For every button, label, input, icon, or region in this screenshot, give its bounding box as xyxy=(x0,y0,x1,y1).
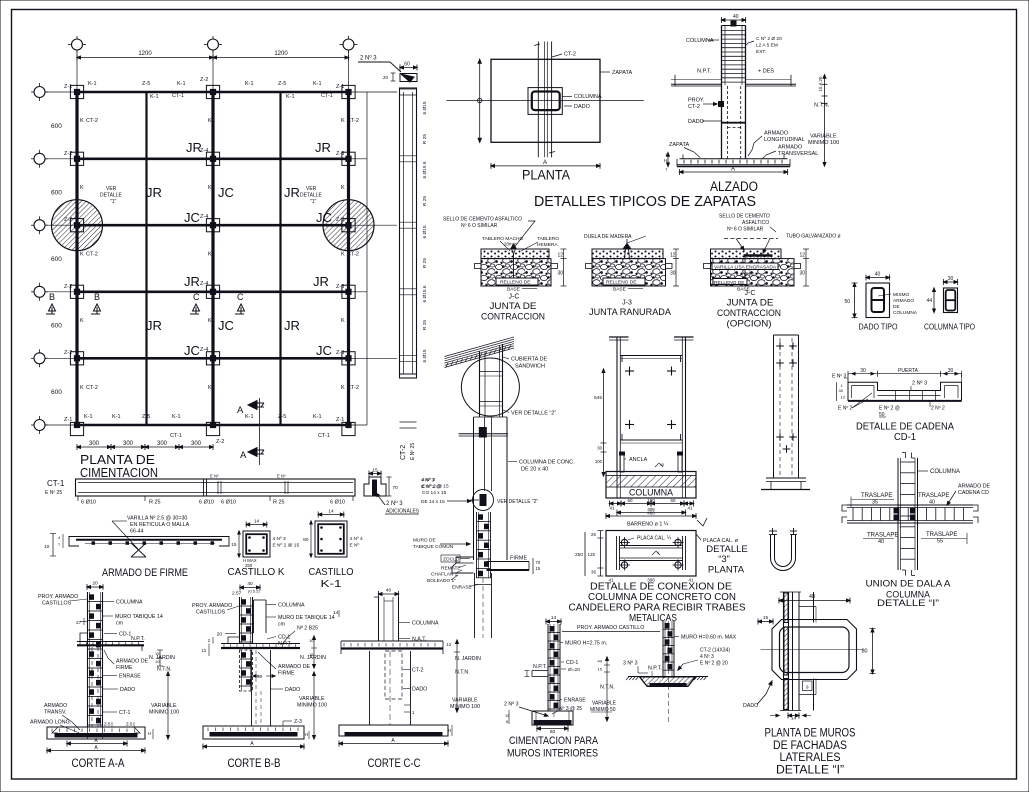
svg-text:R 25: R 25 xyxy=(422,134,428,144)
planta title xyxy=(522,168,570,183)
svg-text:27: 27 xyxy=(76,620,82,626)
cimentacion caption xyxy=(507,735,599,760)
svg-text:VARIABLE: VARIABLE xyxy=(151,703,177,709)
firme slab right xyxy=(487,556,541,575)
corte A-A dado dashed xyxy=(92,647,98,727)
svg-text:“3”: “3” xyxy=(718,554,730,565)
corte C-C column xyxy=(374,588,399,642)
svg-text:Nº 6 O SIMILAR: Nº 6 O SIMILAR xyxy=(461,223,498,229)
svg-text:JR: JR xyxy=(284,318,300,333)
CT-2 strip label xyxy=(400,443,416,460)
svg-text:TRASLAPE: TRASLAPE xyxy=(861,493,892,499)
svg-text:60: 60 xyxy=(670,498,676,503)
svg-text:125: 125 xyxy=(587,552,595,557)
plan top dimension 1200/1200 xyxy=(77,51,349,61)
planta centerline xyxy=(446,100,643,102)
svg-text:4 Nº 3: 4 Nº 3 xyxy=(273,536,287,542)
svg-text:K-1: K-1 xyxy=(88,81,97,87)
svg-text:4 Nº 3: 4 Nº 3 xyxy=(421,478,435,484)
svg-text:15: 15 xyxy=(536,566,541,571)
svg-text:E Nº 3: E Nº 3 xyxy=(832,374,847,380)
CT-2 edge beam strip xyxy=(400,88,417,428)
svg-text:12: 12 xyxy=(800,253,806,259)
alzado zapata footing xyxy=(677,155,790,167)
svg-text:N.P.T.: N.P.T. xyxy=(697,69,712,75)
svg-text:50: 50 xyxy=(844,299,850,305)
svg-text:COLUMNA: COLUMNA xyxy=(686,38,714,44)
svg-text:CASTILLO K: CASTILLO K xyxy=(228,567,285,578)
svg-text:J-C: J-C xyxy=(509,294,520,301)
svg-text:CASTILLOS: CASTILLOS xyxy=(42,601,72,607)
svg-text:20: 20 xyxy=(217,632,223,638)
svg-text:3 Nº 3: 3 Nº 3 xyxy=(623,661,638,667)
svg-text:Z-2: Z-2 xyxy=(216,439,224,445)
union cross column xyxy=(898,453,918,576)
octagon wall strips xyxy=(780,592,816,711)
svg-text:Z-1: Z-1 xyxy=(64,84,72,90)
svg-text:CT-2: CT-2 xyxy=(86,118,98,124)
svg-text:2 Nº 3: 2 Nº 3 xyxy=(912,380,927,387)
svg-text:DETALLE “I”: DETALLE “I” xyxy=(776,764,844,776)
svg-text:N.P.T.: N.P.T. xyxy=(648,666,662,672)
svg-text:K: K xyxy=(80,318,84,324)
svg-text:L2 A 5 EM: L2 A 5 EM xyxy=(756,43,778,49)
svg-text:K: K xyxy=(80,118,84,124)
svg-text:DE 20 x 40: DE 20 x 40 xyxy=(521,467,548,473)
svg-text:VER DETALLE “2”: VER DETALLE “2” xyxy=(511,411,556,417)
CT-1 rebar callouts xyxy=(81,500,345,506)
svg-text:TRASLAPE: TRASLAPE xyxy=(926,532,957,538)
svg-text:JUNTA DE: JUNTA DE xyxy=(490,301,537,312)
svg-text:100: 100 xyxy=(595,459,603,464)
octagon caption xyxy=(765,728,856,777)
svg-text:CONTRACCION: CONTRACCION xyxy=(717,308,781,319)
svg-text:TRASLAPE: TRASLAPE xyxy=(918,493,949,499)
svg-text:4: 4 xyxy=(657,551,659,555)
castillo K caption xyxy=(228,567,285,578)
planta zapata outline xyxy=(491,59,600,142)
svg-text:40: 40 xyxy=(929,500,935,506)
svg-text:20mm: 20mm xyxy=(504,242,517,247)
junta opcion slab xyxy=(704,249,810,286)
proy armado castillo note xyxy=(562,625,660,632)
svg-text:Nº 6 O SIMILAR: Nº 6 O SIMILAR xyxy=(727,227,764,233)
cimentacion muro 2 castillo xyxy=(663,615,773,723)
svg-text:CT-1: CT-1 xyxy=(47,479,65,488)
svg-text:BOLEADO 1": BOLEADO 1" xyxy=(427,578,456,584)
svg-text:DADO TIPO: DADO TIPO xyxy=(859,322,898,332)
svg-text:30: 30 xyxy=(948,368,954,374)
svg-text:300: 300 xyxy=(123,441,134,447)
svg-text:E Nº 2 @ 15: E Nº 2 @ 15 xyxy=(273,543,300,549)
svg-text:40: 40 xyxy=(598,659,603,664)
svg-text:40: 40 xyxy=(875,272,881,278)
octagon centerline xyxy=(761,649,864,651)
svg-text:Z-4: Z-4 xyxy=(200,281,208,287)
svg-text:A: A xyxy=(731,167,735,173)
planta trabe CT-2 strips xyxy=(534,42,555,158)
svg-text:K: K xyxy=(208,252,212,258)
corte C-C caption xyxy=(368,758,421,770)
svg-text:K: K xyxy=(208,185,212,191)
columna tipo detail xyxy=(926,276,957,313)
plan extension lines xyxy=(45,50,397,425)
svg-text:CHAFLAN 2": CHAFLAN 2" xyxy=(431,572,459,578)
svg-text:ZAPATA: ZAPATA xyxy=(612,70,633,76)
svg-text:DADO: DADO xyxy=(412,687,427,693)
svg-text:K-1: K-1 xyxy=(245,414,254,420)
planta bottom dim A xyxy=(491,160,600,169)
planta labels xyxy=(552,52,633,111)
svg-text:48: 48 xyxy=(809,594,815,600)
svg-text:250: 250 xyxy=(575,552,583,558)
svg-text:6 Ø10: 6 Ø10 xyxy=(81,500,96,506)
svg-text:CT-2: CT-2 xyxy=(347,252,359,258)
svg-text:CT-2: CT-2 xyxy=(400,445,407,460)
corte B-B bottom dim xyxy=(203,741,304,750)
plan bottom 300 dimensions xyxy=(77,441,213,450)
svg-text:C: C xyxy=(193,292,200,302)
svg-text:CASTILLOS: CASTILLOS xyxy=(196,610,226,616)
svg-text:CD-1: CD-1 xyxy=(119,632,131,638)
svg-text:K: K xyxy=(341,185,345,191)
svg-text:15 A 20: 15 A 20 xyxy=(818,76,823,92)
svg-text:K: K xyxy=(341,385,345,391)
steel column anchors xyxy=(620,452,683,472)
svg-text:VARILLA LISA ENGRASADA: VARILLA LISA ENGRASADA xyxy=(714,265,777,271)
alzado column with stirrups xyxy=(722,21,746,159)
corte A-A bottom dims xyxy=(47,738,145,754)
svg-text:ANCLA: ANCLA xyxy=(629,457,648,463)
svg-text:VARIABLE: VARIABLE xyxy=(810,134,837,140)
svg-text:SELLO DE CEMENTO ASFALTICO: SELLO DE CEMENTO ASFALTICO xyxy=(443,217,522,223)
svg-text:VARILLA Nº 2.5 @ 30=30: VARILLA Nº 2.5 @ 30=30 xyxy=(127,516,187,522)
svg-text:E Nº: E Nº xyxy=(210,474,219,479)
svg-text:DE 14 x 15: DE 14 x 15 xyxy=(421,499,445,505)
steel column bolts plus xyxy=(625,367,676,430)
svg-text:PLANTA: PLANTA xyxy=(522,168,570,183)
svg-text:44: 44 xyxy=(926,298,932,304)
detalle 3 plate outline xyxy=(606,531,696,577)
svg-text:DE FACHADAS: DE FACHADAS xyxy=(773,740,847,752)
svg-text:CT-1: CT-1 xyxy=(172,93,184,99)
svg-text:14: 14 xyxy=(333,610,339,616)
svg-text:VARIABLE: VARIABLE xyxy=(452,698,478,704)
svg-text:MURO H=0.60 m. MAX: MURO H=0.60 m. MAX xyxy=(681,635,737,641)
svg-text:E Nº 2 @: E Nº 2 @ xyxy=(421,484,441,490)
svg-text:SANDWICH: SANDWICH xyxy=(515,364,545,370)
svg-text:CT-2: CT-2 xyxy=(86,252,98,258)
cimentacion muro 1 footing xyxy=(532,711,573,735)
dado tipo caption xyxy=(859,322,898,332)
svg-text:N.T.N.: N.T.N. xyxy=(157,667,172,673)
svg-text:COLUMNA: COLUMNA xyxy=(278,603,305,609)
svg-text:70: 70 xyxy=(536,560,541,565)
alzado H dim xyxy=(664,152,669,172)
svg-text:MURO DE: MURO DE xyxy=(413,538,436,544)
corte A-A caption xyxy=(72,758,125,770)
svg-text:cm: cm xyxy=(116,621,124,627)
svg-text:150: 150 xyxy=(647,498,655,503)
svg-text:15: 15 xyxy=(231,542,237,548)
svg-text:20: 20 xyxy=(383,75,389,80)
svg-text:6 Ø10: 6 Ø10 xyxy=(330,500,345,506)
plan K CT-2 labels xyxy=(80,118,359,391)
svg-text:DADO: DADO xyxy=(574,104,591,110)
svg-text:2.57: 2.57 xyxy=(232,591,242,597)
svg-text:DADO: DADO xyxy=(743,703,758,709)
detalle 3 caption xyxy=(706,544,748,576)
cadena caption xyxy=(856,421,954,444)
svg-text:JC: JC xyxy=(184,210,200,225)
corte C-C right dims xyxy=(446,640,481,736)
corte C-C slab xyxy=(341,641,443,654)
2 No 3 adicionales detail xyxy=(364,468,419,515)
svg-text:N. JARDIN: N. JARDIN xyxy=(455,656,481,662)
roof column pedestal xyxy=(474,417,508,560)
svg-text:JR: JR xyxy=(184,274,200,289)
svg-text:CT-2: CT-2 xyxy=(688,104,700,110)
svg-text:K: K xyxy=(80,385,84,391)
svg-text:BASE: BASE xyxy=(507,287,520,293)
svg-text:CT-2: CT-2 xyxy=(347,118,359,124)
svg-text:30: 30 xyxy=(597,446,602,451)
svg-text:JC: JC xyxy=(316,343,332,358)
svg-text:66-44: 66-44 xyxy=(130,529,144,535)
detalle 3 bolts xyxy=(619,537,684,571)
columna tipo caption xyxy=(924,322,975,332)
svg-text:TABLERO MACHO: TABLERO MACHO xyxy=(482,236,523,242)
svg-text:N.T.N.: N.T.N. xyxy=(455,670,470,676)
U anchor bolt xyxy=(769,528,797,571)
steel column pedestal caption xyxy=(629,488,674,499)
svg-text:TUBO GALVANIZADO ø: TUBO GALVANIZADO ø xyxy=(786,234,841,240)
svg-text:600: 600 xyxy=(51,190,62,197)
svg-text:PLACA CAL. ¼: PLACA CAL. ¼ xyxy=(637,536,672,542)
svg-text:MURO DE TABIQUE 14: MURO DE TABIQUE 14 xyxy=(278,615,335,621)
svg-text:CT-2: CT-2 xyxy=(564,52,576,58)
svg-text:ASFALTICO: ASFALTICO xyxy=(742,220,769,226)
svg-text:40: 40 xyxy=(386,588,392,594)
svg-text:DUELA DE MADERA: DUELA DE MADERA xyxy=(584,234,632,240)
svg-text:CADENA CD: CADENA CD xyxy=(958,490,989,496)
ver detalle 1 notes xyxy=(100,186,323,205)
svg-text:UNION DE DALA A: UNION DE DALA A xyxy=(866,579,952,590)
svg-text:PROY. ARMADO: PROY. ARMADO xyxy=(38,594,78,600)
svg-text:45: 45 xyxy=(660,463,664,467)
svg-text:VER DETALLE “2”: VER DETALLE “2” xyxy=(497,499,538,505)
svg-text:35: 35 xyxy=(872,500,878,506)
svg-text:ENRASE: ENRASE xyxy=(564,698,586,704)
svg-text:600: 600 xyxy=(51,323,62,330)
detalle 3 barreno note xyxy=(627,518,707,528)
svg-text:E Nº 25: E Nº 25 xyxy=(45,490,62,496)
svg-text:6 Ø15 6: 6 Ø15 6 xyxy=(422,285,428,302)
zoclo step xyxy=(452,557,474,573)
svg-text:R 25: R 25 xyxy=(422,258,428,268)
corte C-C labels xyxy=(333,610,439,693)
svg-text:ARMADO DE: ARMADO DE xyxy=(116,659,149,665)
svg-text:30: 30 xyxy=(800,271,806,277)
svg-text:Z-5: Z-5 xyxy=(126,722,133,727)
corte A-A labels xyxy=(30,594,163,735)
roof detail circle xyxy=(461,358,519,416)
armado de firme slab xyxy=(69,537,229,558)
svg-text:RELLENO DE: RELLENO DE xyxy=(500,280,530,286)
note 2 No 3 with flag xyxy=(358,55,417,83)
svg-text:JR: JR xyxy=(284,185,300,200)
svg-text:30: 30 xyxy=(558,271,564,277)
svg-text:ZAPATA: ZAPATA xyxy=(669,142,690,148)
junta J-3 caption xyxy=(589,300,672,319)
corte A-A footing xyxy=(47,727,145,739)
svg-text:545: 545 xyxy=(594,395,602,401)
svg-text:ARMADO: ARMADO xyxy=(778,145,803,151)
svg-text:K-1: K-1 xyxy=(150,94,159,100)
svg-text:COLUMNA: COLUMNA xyxy=(574,94,602,100)
svg-text:55: 55 xyxy=(937,539,943,545)
svg-text:MURO H=2.75 m.: MURO H=2.75 m. xyxy=(565,641,607,647)
svg-text:15: 15 xyxy=(309,652,314,657)
svg-text:TRANSVERSAL: TRANSVERSAL xyxy=(778,151,818,157)
svg-text:COLUMNA: COLUMNA xyxy=(930,469,960,475)
roof column castillo lower xyxy=(470,490,494,579)
plan left dimensions 600 xyxy=(51,123,62,396)
union cross dala xyxy=(842,505,978,523)
hatched circle detail 1 right xyxy=(323,200,374,251)
svg-text:6 Ø15: 6 Ø15 xyxy=(422,101,428,114)
cubierta sloped roof lines xyxy=(445,337,515,368)
svg-text:6 Ø15: 6 Ø15 xyxy=(422,349,428,362)
section A-A arrows xyxy=(237,398,264,465)
detalle 3 plate labels xyxy=(628,534,739,555)
svg-text:300: 300 xyxy=(157,441,168,447)
svg-text:JR: JR xyxy=(146,185,162,200)
svg-text:CT-2: CT-2 xyxy=(86,385,98,391)
octagon small box xyxy=(803,681,813,691)
svg-text:70: 70 xyxy=(393,485,399,491)
svg-text:CD-1: CD-1 xyxy=(278,635,290,641)
plan top grid bubbles xyxy=(68,36,358,53)
svg-text:Z-2: Z-2 xyxy=(200,77,208,83)
svg-text:13: 13 xyxy=(201,648,206,653)
svg-text:13: 13 xyxy=(446,642,451,647)
svg-text:CD-1: CD-1 xyxy=(894,431,916,443)
plan mid row zapata labels xyxy=(64,148,344,356)
svg-text:COLUMNA: COLUMNA xyxy=(116,600,143,606)
svg-text:E Nº: E Nº xyxy=(277,474,286,479)
svg-text:DADO: DADO xyxy=(120,687,135,693)
svg-text:K-1: K-1 xyxy=(313,81,322,87)
svg-text:ARMADO DE: ARMADO DE xyxy=(958,484,991,490)
svg-text:REMATE: REMATE xyxy=(441,566,461,572)
svg-text:TABIQUE COMUN: TABIQUE COMUN xyxy=(413,544,454,550)
svg-text:COLUMNA: COLUMNA xyxy=(629,488,674,499)
section B-B arrows xyxy=(46,292,101,314)
plan left grid bubbles xyxy=(31,83,48,434)
CT-2 strip rebar callouts xyxy=(422,101,428,362)
corte B-B firme slab xyxy=(221,637,300,648)
svg-text:80: 80 xyxy=(303,537,309,543)
cimentacion muro 1 dims xyxy=(598,657,615,721)
svg-text:E Nº 2 @ 20: E Nº 2 @ 20 xyxy=(700,661,728,667)
roof column below floor xyxy=(475,573,492,638)
detalle conexion caption xyxy=(569,581,746,625)
corte B-B pedestal xyxy=(240,650,271,726)
svg-text:Z-4: Z-4 xyxy=(200,347,208,353)
steel column bottom dims xyxy=(606,498,696,519)
svg-text:DETALLES TIPICOS DE ZAPATAS: DETALLES TIPICOS DE ZAPATAS xyxy=(534,193,756,210)
sheet title xyxy=(534,193,756,210)
svg-text:K: K xyxy=(208,318,212,324)
svg-text:PROY. ARMADO CASTILLO: PROY. ARMADO CASTILLO xyxy=(577,625,644,631)
alzado top dim 40 xyxy=(722,14,746,23)
svg-text:K-1: K-1 xyxy=(177,81,186,87)
svg-text:6 Ø15 6: 6 Ø15 6 xyxy=(422,161,428,178)
svg-text:N.T.N.: N.T.N. xyxy=(600,685,615,691)
steel column pedestal xyxy=(606,472,696,499)
svg-text:15: 15 xyxy=(598,667,603,672)
svg-text:E Nº 25: E Nº 25 xyxy=(410,443,416,460)
CT-1 beam strip xyxy=(76,474,356,502)
svg-text:"1": "1" xyxy=(110,199,117,205)
svg-text:CO 14 x 15: CO 14 x 15 xyxy=(422,490,447,496)
roof column tie crossbar xyxy=(459,428,508,438)
svg-text:H: H xyxy=(448,728,451,733)
svg-text:PROY. ARMADO: PROY. ARMADO xyxy=(192,603,232,609)
svg-text:41: 41 xyxy=(687,506,693,511)
svg-text:MUROS INTERIORES: MUROS INTERIORES xyxy=(507,748,598,760)
svg-text:ARMADO LONG.: ARMADO LONG. xyxy=(30,720,71,726)
svg-text:E Nº: E Nº xyxy=(350,543,360,549)
steel column frame xyxy=(609,337,694,472)
svg-text:15: 15 xyxy=(505,713,510,718)
svg-text:(OPCION): (OPCION) xyxy=(727,319,772,330)
junta J-3 labels xyxy=(584,234,646,293)
junta opcion caption xyxy=(717,290,781,330)
section C-C arrows xyxy=(190,292,245,314)
union cross caption xyxy=(866,579,952,610)
svg-text:40: 40 xyxy=(733,14,739,20)
corte B-B footing xyxy=(203,726,304,739)
svg-text:60: 60 xyxy=(627,498,633,503)
corte A-A castillo column xyxy=(87,581,103,728)
plan title xyxy=(80,452,158,480)
svg-text:JUNTA DE: JUNTA DE xyxy=(727,298,774,309)
junta J-C caption xyxy=(481,294,545,323)
svg-text:CT-1: CT-1 xyxy=(170,433,182,439)
svg-text:41: 41 xyxy=(609,506,615,511)
svg-text:Z-3: Z-3 xyxy=(294,719,302,725)
svg-text:ARMADO DE FIRME: ARMADO DE FIRME xyxy=(102,567,188,579)
plan main column axes K-1 xyxy=(77,92,349,425)
svg-text:cm: cm xyxy=(278,622,286,628)
svg-text:J-3: J-3 xyxy=(622,300,632,307)
svg-text:Ø=20: Ø=20 xyxy=(568,667,580,673)
zapata squares Z at grid intersections xyxy=(70,85,355,435)
octagon dado label xyxy=(743,681,772,709)
armado de firme caption xyxy=(102,567,188,579)
svg-text:EN RETICULA O MALLA: EN RETICULA O MALLA xyxy=(130,522,190,528)
svg-text:Z-5: Z-5 xyxy=(142,414,150,420)
svg-text:60: 60 xyxy=(404,62,410,68)
svg-text:VER: VER xyxy=(306,186,317,192)
svg-text:2 Nº 3: 2 Nº 3 xyxy=(360,55,377,62)
svg-text:C Nº 2 Ø 20: C Nº 2 Ø 20 xyxy=(756,36,782,42)
svg-text:PROY.: PROY. xyxy=(688,98,705,104)
svg-text:600: 600 xyxy=(51,123,62,130)
svg-text:14: 14 xyxy=(328,509,334,515)
